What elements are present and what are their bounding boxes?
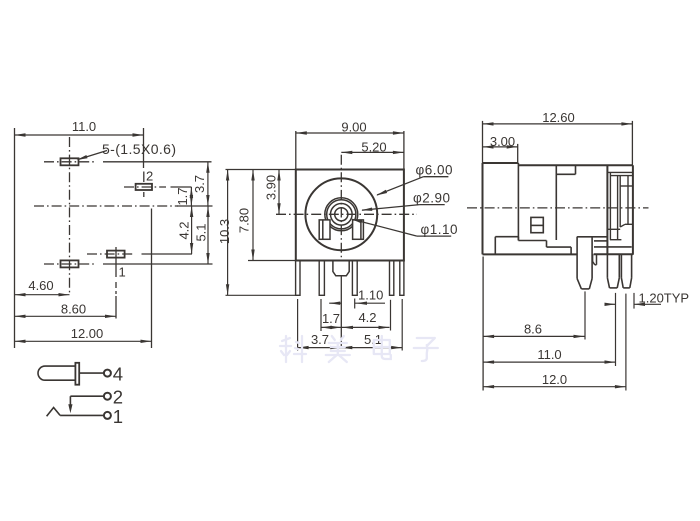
svg-text:3.00: 3.00 (490, 134, 515, 149)
svg-text:1.7: 1.7 (322, 311, 340, 326)
svg-text:1: 1 (119, 265, 126, 280)
svg-text:3.7: 3.7 (192, 175, 207, 193)
svg-text:5-(1.5X0.6): 5-(1.5X0.6) (102, 141, 176, 157)
svg-text:12.60: 12.60 (542, 110, 575, 125)
svg-text:2: 2 (113, 387, 123, 408)
svg-text:1.10: 1.10 (358, 288, 383, 303)
svg-text:9.00: 9.00 (341, 119, 366, 134)
svg-text:11.0: 11.0 (537, 347, 561, 362)
svg-text:3.90: 3.90 (264, 175, 279, 200)
svg-text:1.20TYP: 1.20TYP (639, 291, 690, 306)
svg-text:4.2: 4.2 (358, 310, 376, 325)
svg-text:8.6: 8.6 (524, 321, 542, 336)
svg-text:12.0: 12.0 (542, 372, 567, 387)
svg-text:12.00: 12.00 (71, 326, 104, 341)
svg-text:11.0: 11.0 (72, 119, 96, 134)
svg-text:φ1.10: φ1.10 (421, 222, 459, 237)
svg-text:8.60: 8.60 (61, 301, 86, 316)
svg-text:7.80: 7.80 (236, 208, 251, 233)
svg-text:φ2.90: φ2.90 (413, 191, 451, 206)
svg-text:10.3: 10.3 (217, 219, 232, 244)
svg-text:3.7: 3.7 (311, 332, 329, 347)
svg-text:φ6.00: φ6.00 (416, 163, 454, 178)
svg-text:4.60: 4.60 (28, 278, 53, 293)
svg-text:4.2: 4.2 (176, 221, 191, 239)
svg-text:1: 1 (113, 406, 123, 427)
svg-text:5.1: 5.1 (193, 223, 208, 241)
svg-text:5.20: 5.20 (361, 139, 386, 154)
svg-text:1.7: 1.7 (175, 187, 190, 205)
svg-text:4: 4 (113, 363, 123, 384)
svg-text:2: 2 (146, 169, 153, 184)
